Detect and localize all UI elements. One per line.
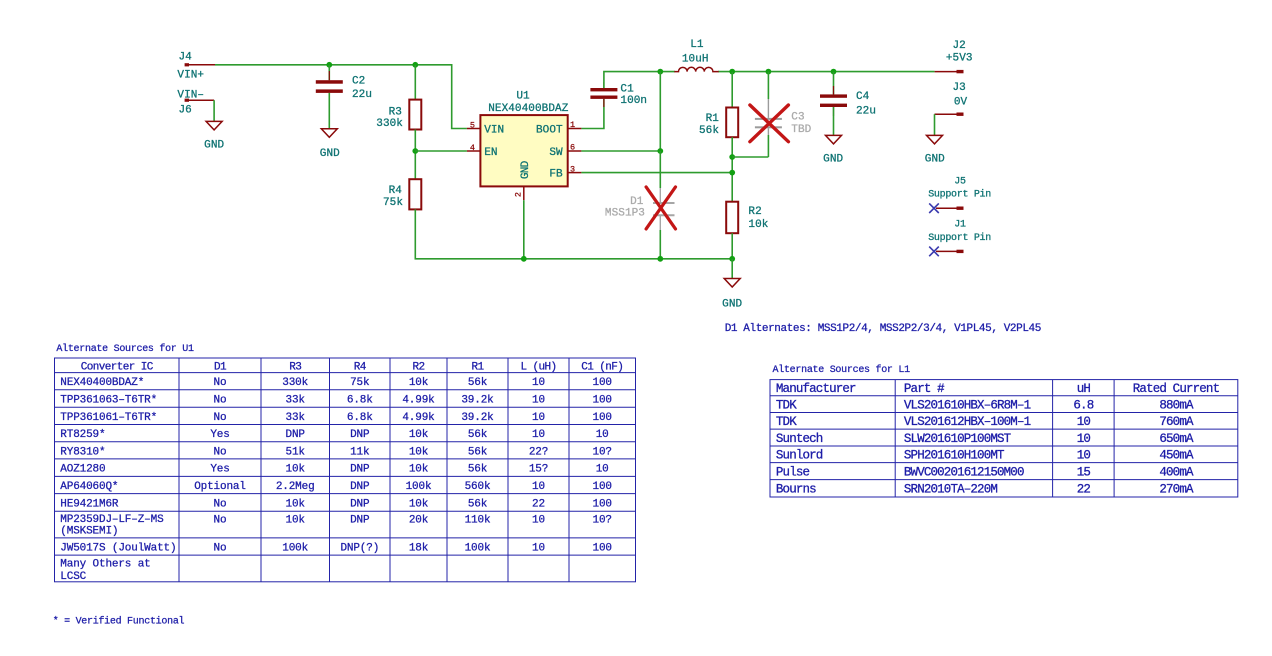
wire SW vertical: [659, 72, 661, 151]
svg-text:SLW201610P100MST: SLW201610P100MST: [904, 432, 1012, 446]
wire R2 bottom: [731, 233, 733, 259]
svg-text:No: No: [214, 498, 227, 510]
capacitor C4: [820, 86, 876, 117]
svg-text:880mA: 880mA: [1159, 399, 1194, 413]
svg-text:56k: 56k: [468, 464, 488, 476]
svg-text:400mA: 400mA: [1159, 466, 1194, 480]
svg-text:0V: 0V: [954, 97, 968, 109]
svg-text:+5V3: +5V3: [946, 52, 973, 64]
table L1 alternates grid: [770, 380, 1238, 497]
svg-text:Alternate Sources for L1: Alternate Sources for L1: [773, 364, 911, 376]
svg-text:NEX40400BDAZ: NEX40400BDAZ: [488, 103, 568, 115]
svg-text:Sunlord: Sunlord: [776, 449, 823, 463]
wire C3 bottom link: [732, 156, 768, 158]
svg-text:10: 10: [532, 515, 545, 527]
svg-text:2.2Meg: 2.2Meg: [276, 481, 315, 493]
svg-text:10: 10: [1077, 449, 1091, 463]
svg-text:TBD: TBD: [791, 124, 811, 136]
inductor L1: [674, 39, 718, 72]
svg-text:100: 100: [593, 543, 612, 555]
resistor R2: [726, 202, 769, 234]
svg-text:MSS1P3: MSS1P3: [605, 208, 645, 220]
svg-text:450mA: 450mA: [1159, 449, 1194, 463]
svg-text:TDK: TDK: [776, 415, 797, 429]
connector J6: [179, 99, 215, 117]
node junction FB: [729, 170, 735, 176]
wire rail to ground symbol: [731, 259, 733, 279]
svg-text:GND: GND: [320, 148, 340, 160]
svg-text:No: No: [214, 377, 227, 389]
capacitor C1: [590, 82, 647, 107]
svg-text:10: 10: [1077, 432, 1091, 446]
node junction D1 bottom: [657, 256, 663, 262]
svg-text:R2: R2: [412, 361, 424, 373]
wire C3 upper lead: [767, 72, 769, 99]
wire C3 lower lead: [767, 135, 769, 157]
capacitor C3 greyed DNP: [755, 99, 812, 136]
svg-text:56k: 56k: [468, 498, 488, 510]
svg-text:DNP: DNP: [350, 498, 370, 510]
pin 6 SW: [549, 143, 581, 160]
svg-text:51k: 51k: [286, 446, 306, 458]
svg-text:33k: 33k: [286, 395, 306, 407]
svg-text:C1 (nF): C1 (nF): [581, 361, 623, 373]
svg-text:TPP361063–T6TR*: TPP361063–T6TR*: [60, 395, 157, 407]
svg-text:Yes: Yes: [210, 464, 229, 476]
svg-text:100: 100: [593, 498, 612, 510]
resistor R4: [383, 179, 421, 209]
table L1 rows: [776, 382, 1220, 497]
svg-text:650mA: 650mA: [1159, 432, 1194, 446]
svg-text:J5: J5: [954, 177, 966, 188]
svg-text:10: 10: [596, 429, 609, 441]
svg-text:22u: 22u: [352, 89, 372, 101]
svg-text:10k: 10k: [286, 498, 306, 510]
svg-text:1: 1: [570, 120, 575, 130]
svg-text:uH: uH: [1077, 382, 1091, 396]
svg-text:J1: J1: [954, 220, 966, 231]
svg-text:10k: 10k: [409, 498, 429, 510]
connector J4: [179, 52, 215, 67]
wire EN: [415, 150, 467, 152]
connector J5 no-connect: [928, 177, 991, 214]
svg-text:R1: R1: [471, 361, 484, 373]
svg-text:U1: U1: [516, 90, 530, 102]
svg-text:GND: GND: [520, 160, 532, 179]
svg-text:JW5017S (JoulWatt): JW5017S (JoulWatt): [60, 543, 176, 555]
ground symbol at J6: [204, 121, 224, 151]
svg-text:VLS201612HBX–100M–1: VLS201612HBX–100M–1: [904, 415, 1031, 429]
svg-text:10k: 10k: [409, 464, 429, 476]
wire R3 top lead: [414, 65, 416, 100]
svg-text:56k: 56k: [468, 446, 488, 458]
svg-text:10: 10: [532, 412, 545, 424]
svg-text:10: 10: [532, 395, 545, 407]
node junction C3 top: [766, 69, 772, 75]
svg-text:6.8: 6.8: [1073, 399, 1093, 413]
svg-text:56k: 56k: [699, 125, 719, 137]
svg-text:75k: 75k: [383, 197, 403, 209]
svg-text:VIN+: VIN+: [177, 69, 204, 81]
svg-text:330k: 330k: [376, 118, 403, 130]
svg-text:22: 22: [1077, 483, 1091, 497]
svg-text:No: No: [214, 395, 227, 407]
wire U1 GND pin to rail: [523, 200, 525, 259]
svg-text:L (uH): L (uH): [520, 361, 556, 373]
svg-text:RY8310*: RY8310*: [60, 446, 105, 458]
svg-text:100: 100: [593, 377, 612, 389]
svg-text:10?: 10?: [593, 515, 612, 527]
svg-text:100k: 100k: [282, 543, 308, 555]
svg-text:SPH201610H100MT: SPH201610H100MT: [904, 449, 1005, 463]
svg-text:3: 3: [570, 165, 575, 175]
svg-text:6: 6: [570, 143, 575, 153]
svg-text:MP2359DJ–LF–Z–MS: MP2359DJ–LF–Z–MS: [60, 514, 164, 526]
table U1 data rows: [60, 377, 612, 583]
svg-text:100: 100: [593, 412, 612, 424]
svg-text:6.8k: 6.8k: [347, 395, 373, 407]
svg-text:100k: 100k: [406, 481, 432, 493]
svg-text:C2: C2: [352, 76, 365, 88]
svg-text:Suntech: Suntech: [776, 432, 823, 446]
svg-text:D1 Alternates: MSS1P2/4, MSS2P: D1 Alternates: MSS1P2/4, MSS2P2/3/4, V1P…: [725, 323, 1041, 335]
svg-text:10k: 10k: [286, 515, 306, 527]
node junction ground rail right end: [729, 256, 735, 262]
node junction SW pin: [657, 148, 663, 154]
node junction at R3 top: [412, 62, 418, 68]
wire D1 vertical lower: [659, 230, 661, 259]
svg-text:15?: 15?: [529, 464, 548, 476]
svg-text:SRN2010TA–220M: SRN2010TA–220M: [904, 483, 997, 497]
connector J1 no-connect: [928, 220, 991, 257]
svg-text:D1: D1: [630, 196, 644, 208]
node junction SW rail: [657, 69, 663, 75]
wire SW pin horizontal: [581, 150, 660, 152]
wire C4 upper lead: [833, 72, 835, 95]
svg-text:DNP: DNP: [350, 515, 370, 527]
svg-text:Manufacturer: Manufacturer: [776, 382, 856, 396]
svg-text:100n: 100n: [620, 95, 647, 107]
wire C2 upper lead: [328, 65, 330, 80]
svg-text:10k: 10k: [409, 446, 429, 458]
svg-text:R3: R3: [389, 106, 402, 118]
svg-text:DNP(?): DNP(?): [340, 543, 379, 555]
pin 3 FB: [549, 165, 581, 181]
wire R4 bottom to ground rail: [415, 209, 732, 258]
op-amp U1 body: [480, 90, 568, 186]
svg-text:5: 5: [470, 120, 475, 130]
svg-text:L1: L1: [690, 39, 704, 51]
svg-text:10?: 10?: [593, 446, 612, 458]
svg-text:100k: 100k: [465, 543, 491, 555]
table U1 header row: [81, 361, 623, 373]
svg-text:R2: R2: [748, 206, 761, 218]
svg-text:10: 10: [532, 429, 545, 441]
svg-text:HE9421M6R: HE9421M6R: [60, 498, 119, 510]
svg-text:D1: D1: [214, 361, 227, 373]
svg-text:22u: 22u: [856, 105, 876, 117]
svg-text:GND: GND: [722, 299, 742, 311]
svg-text:Rated Current: Rated Current: [1133, 382, 1220, 396]
wire R1 top lead: [731, 72, 733, 108]
svg-text:C1: C1: [620, 84, 634, 96]
wire BOOT to C1: [581, 99, 604, 129]
svg-text:10: 10: [532, 543, 545, 555]
svg-text:4.99k: 4.99k: [402, 412, 435, 424]
svg-text:18k: 18k: [409, 543, 429, 555]
diode D1 greyed DNP: [605, 188, 675, 230]
svg-text:56k: 56k: [468, 377, 488, 389]
wire R1 bottom through FB node to R2: [731, 137, 733, 202]
svg-text:Many Others at: Many Others at: [60, 559, 150, 571]
svg-text:11k: 11k: [350, 446, 370, 458]
svg-text:39.2k: 39.2k: [461, 412, 494, 424]
svg-text:Support Pin: Support Pin: [928, 189, 991, 201]
svg-text:100: 100: [593, 395, 612, 407]
svg-text:C3: C3: [791, 111, 804, 123]
wire C1 top to output rail corner: [604, 72, 675, 88]
svg-text:6.8k: 6.8k: [347, 412, 373, 424]
connector J3: [935, 82, 968, 116]
svg-text:NEX40400BDAZ*: NEX40400BDAZ*: [60, 377, 144, 389]
svg-text:GND: GND: [925, 154, 945, 166]
svg-text:J3: J3: [953, 82, 966, 94]
svg-text:No: No: [214, 515, 227, 527]
pin 5 VIN: [467, 120, 504, 136]
svg-text:DNP: DNP: [350, 429, 370, 441]
svg-text:SW: SW: [549, 147, 563, 159]
node EN junction: [412, 148, 418, 154]
svg-text:TDK: TDK: [776, 399, 797, 413]
svg-text:Support Pin: Support Pin: [928, 232, 991, 244]
svg-text:DNP: DNP: [350, 464, 370, 476]
DNP X over D1: [646, 187, 675, 229]
svg-text:J4: J4: [179, 52, 193, 64]
svg-text:VIN: VIN: [484, 125, 504, 137]
svg-text:C4: C4: [856, 91, 870, 103]
svg-text:AOZ1280: AOZ1280: [60, 464, 105, 476]
node junction L1 out: [729, 69, 735, 75]
svg-text:2: 2: [513, 192, 523, 197]
wire J6 to ground: [213, 100, 215, 121]
svg-text:10uH: 10uH: [682, 53, 709, 65]
svg-text:330k: 330k: [282, 377, 308, 389]
svg-text:4: 4: [470, 143, 475, 153]
svg-text:BOOT: BOOT: [536, 125, 563, 137]
connector J2: [935, 40, 973, 74]
svg-text:Optional: Optional: [194, 481, 246, 493]
wire C4 lower lead to ground: [833, 107, 835, 135]
pin 2 GND: [513, 160, 532, 200]
svg-text:Bourns: Bourns: [776, 483, 816, 497]
svg-text:560k: 560k: [465, 481, 491, 493]
svg-text:DNP: DNP: [286, 429, 306, 441]
svg-text:DNP: DNP: [350, 481, 370, 493]
svg-text:TPP361061–T6TR*: TPP361061–T6TR*: [60, 412, 157, 424]
svg-text:GND: GND: [204, 139, 224, 151]
svg-text:RT8259*: RT8259*: [60, 429, 105, 441]
svg-text:100: 100: [593, 481, 612, 493]
svg-text:4.99k: 4.99k: [402, 395, 435, 407]
node junction C4 top: [831, 69, 837, 75]
svg-text:270mA: 270mA: [1159, 483, 1194, 497]
node VIN junction at C2: [326, 62, 332, 68]
ground symbol at R2: [722, 279, 742, 311]
wire D1 vertical upper: [659, 151, 661, 188]
svg-text:(MSKSEMI): (MSKSEMI): [60, 526, 118, 538]
table U1 alternates grid: [55, 358, 636, 582]
svg-text:110k: 110k: [465, 515, 491, 527]
ground symbol at C2: [320, 129, 340, 160]
svg-text:10k: 10k: [286, 464, 306, 476]
wire VIN rail J4 to corner: [215, 65, 467, 129]
svg-text:BWVC00201612150M00: BWVC00201612150M00: [904, 466, 1024, 480]
svg-text:Converter IC: Converter IC: [81, 361, 154, 373]
svg-text:R3: R3: [289, 361, 301, 373]
svg-text:LCSC: LCSC: [60, 571, 86, 583]
resistor R1: [699, 108, 738, 138]
svg-text:FB: FB: [549, 169, 563, 181]
svg-text:EN: EN: [484, 147, 497, 159]
svg-text:J6: J6: [179, 105, 192, 117]
svg-text:R4: R4: [389, 185, 403, 197]
svg-text:R4: R4: [354, 361, 367, 373]
wire R3 bottom to R4 top: [414, 130, 416, 180]
svg-text:Yes: Yes: [210, 429, 229, 441]
wire C2 lower lead to ground: [328, 93, 330, 129]
ground symbol at C4: [823, 135, 843, 165]
svg-text:15: 15: [1077, 466, 1091, 480]
svg-text:Part #: Part #: [904, 382, 945, 396]
svg-text:No: No: [214, 446, 227, 458]
svg-text:No: No: [214, 412, 227, 424]
capacitor C2: [316, 71, 372, 102]
wire J3 to ground: [934, 114, 936, 135]
svg-text:22?: 22?: [529, 446, 548, 458]
svg-text:* = Verified Functional: * = Verified Functional: [53, 616, 185, 628]
svg-text:760mA: 760mA: [1159, 415, 1194, 429]
svg-text:10: 10: [532, 481, 545, 493]
svg-text:75k: 75k: [350, 377, 370, 389]
svg-text:VLS201610HBX–6R8M–1: VLS201610HBX–6R8M–1: [904, 399, 1031, 413]
svg-text:AP64060Q*: AP64060Q*: [60, 481, 118, 493]
ground symbol at J3: [925, 135, 945, 165]
svg-text:10k: 10k: [748, 219, 768, 231]
svg-text:39.2k: 39.2k: [461, 395, 494, 407]
resistor R3: [376, 100, 421, 131]
DNP X over C3: [750, 105, 789, 142]
svg-text:10: 10: [532, 377, 545, 389]
svg-text:R1: R1: [706, 113, 720, 125]
svg-text:GND: GND: [823, 154, 843, 166]
pin 1 BOOT: [536, 120, 581, 136]
node junction U1 GND on rail: [521, 256, 527, 262]
svg-text:33k: 33k: [286, 412, 306, 424]
svg-text:22: 22: [532, 498, 545, 510]
svg-text:Pulse: Pulse: [776, 466, 810, 480]
svg-text:No: No: [214, 543, 227, 555]
svg-text:20k: 20k: [409, 515, 429, 527]
svg-text:10k: 10k: [409, 429, 429, 441]
wire FB: [581, 172, 732, 174]
svg-text:10: 10: [596, 464, 609, 476]
pin 4 EN: [467, 143, 498, 159]
svg-text:10k: 10k: [409, 377, 429, 389]
svg-text:J2: J2: [953, 40, 966, 52]
svg-text:56k: 56k: [468, 429, 488, 441]
node junction R1/C3 bottom: [729, 154, 735, 160]
svg-text:Alternate Sources for U1: Alternate Sources for U1: [56, 343, 194, 355]
svg-text:10: 10: [1077, 415, 1091, 429]
